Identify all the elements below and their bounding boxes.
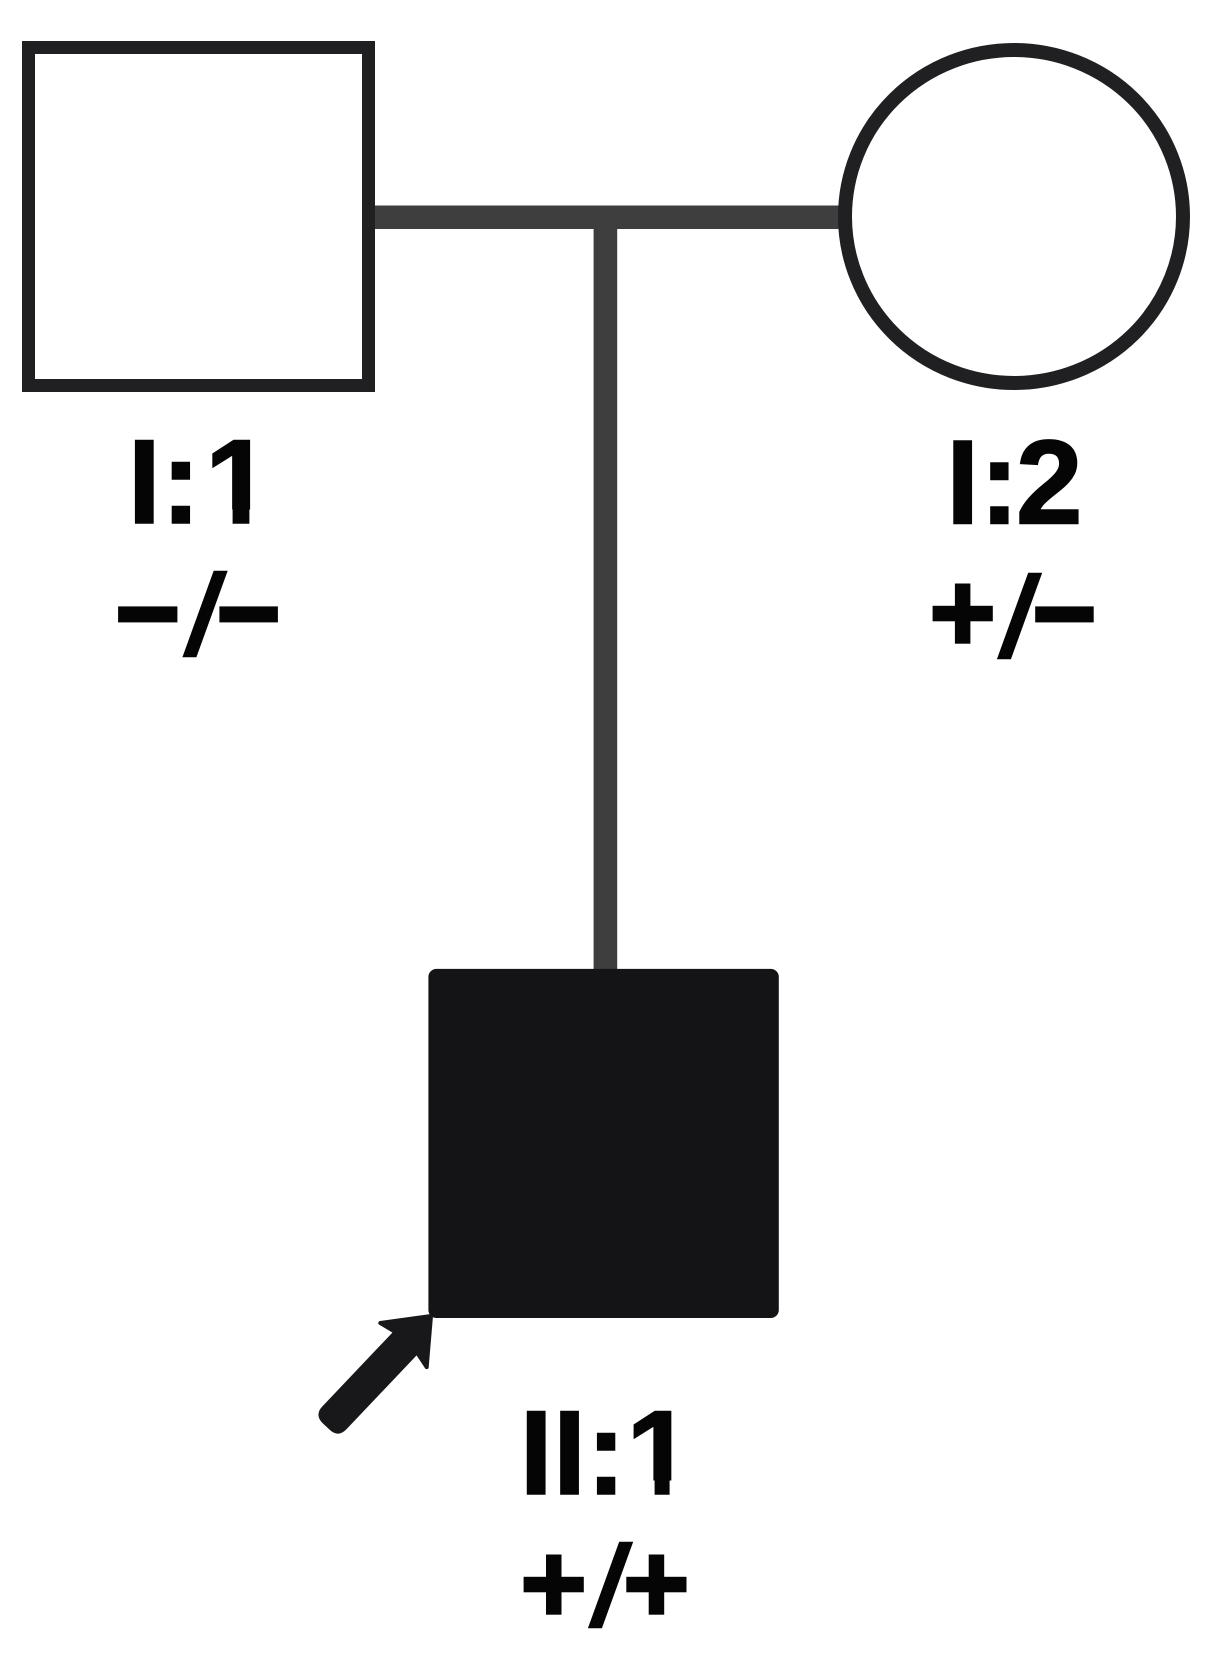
svg-text:I:2: I:2 (946, 416, 1083, 550)
svg-text:I:1: I:1 (128, 415, 272, 549)
svg-text:II:1: II:1 (520, 1386, 693, 1520)
